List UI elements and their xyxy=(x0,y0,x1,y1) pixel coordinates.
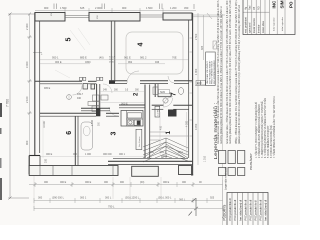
svg-text:3: 3 xyxy=(111,132,118,136)
svg-text:PŮDORYS: PŮDORYS xyxy=(222,205,227,221)
room 4 faint ceiling outline xyxy=(126,32,183,74)
kitchen block outer xyxy=(121,111,143,127)
bottom dim line 3 xyxy=(34,206,223,211)
kitchen tall unit xyxy=(136,129,142,149)
top dimension row texts xyxy=(44,6,189,10)
svg-text:000 L: 000 L xyxy=(179,199,186,202)
stairs upper treads xyxy=(150,132,188,140)
svg-text:949-7: 949-7 xyxy=(77,93,84,96)
svg-text:790 L: 790 L xyxy=(108,204,115,208)
scan artifact left edge xyxy=(0,103,2,117)
bottom dim row 1 texts xyxy=(44,181,202,184)
svg-text:E03: E03 xyxy=(197,81,202,85)
window between bar B and C xyxy=(140,15,163,17)
svg-text:4 000: 4 000 xyxy=(185,120,188,127)
room 7 left wall xyxy=(155,84,158,97)
svg-text:SM2: SM2 xyxy=(160,91,166,94)
thick joint block xyxy=(96,108,100,116)
svg-text:7. VŠEM OBRAZE LUVODĚNÉ LÁKA T: 7. VŠEM OBRAZE LUVODĚNÉ LÁKA TYLI NA VRS… xyxy=(273,96,276,158)
mid cluster texts xyxy=(109,57,115,64)
svg-text:2 500: 2 500 xyxy=(195,33,198,40)
bottom dim line 1 xyxy=(29,182,223,187)
svg-text:PVC potrubí tlls dl: PVC potrubí tlls dl xyxy=(244,199,248,220)
svg-text:981 2: 981 2 xyxy=(140,56,147,60)
svg-text:2 100: 2 100 xyxy=(25,96,29,103)
svg-text:1: 1 xyxy=(165,131,172,135)
right wall window marks xyxy=(190,38,193,136)
kitchen block divisions xyxy=(127,111,144,127)
right top dimension lines xyxy=(193,13,225,90)
svg-text:900: 900 xyxy=(122,6,127,10)
top right title block table xyxy=(243,0,295,35)
kitchen circle xyxy=(129,121,132,124)
svg-text:1 000: 1 000 xyxy=(85,153,92,156)
svg-text:940: 940 xyxy=(77,97,82,100)
svg-text:PO: PO xyxy=(289,1,294,8)
bathroom label texts xyxy=(44,87,84,100)
svg-text:2 000: 2 000 xyxy=(95,6,102,10)
legend swatch row 1 box 3 xyxy=(238,151,245,164)
corridor door arcs xyxy=(103,84,112,93)
svg-text:000 E: 000 E xyxy=(55,61,62,64)
svg-text:Rad: Rad xyxy=(249,5,252,10)
E03 label boxes xyxy=(196,81,205,86)
svg-text:900: 900 xyxy=(120,181,125,184)
svg-text:1 010: 1 010 xyxy=(204,155,207,162)
stairs chevrons xyxy=(143,138,188,162)
bathroom door arc xyxy=(73,86,83,96)
stair center dim line xyxy=(159,112,161,155)
interior dim line rooms 5/4 xyxy=(40,60,188,64)
bottom extension lines xyxy=(34,176,223,209)
svg-text:6: 6 xyxy=(66,131,73,135)
wall below room 5 xyxy=(35,81,97,84)
svg-text:6. POKUD JE PADLOUKÉ ŽIVÉ: 6. POKUD JE PADLOUKÉ ŽIVÉ xyxy=(270,125,273,158)
svg-text:PVC potrubí tlls dl: PVC potrubí tlls dl xyxy=(233,199,237,220)
door arc stair entry xyxy=(163,98,172,107)
window between bar A and B xyxy=(65,16,89,18)
legend swatch row 1 box 1 xyxy=(219,151,226,164)
fridge unit xyxy=(155,106,160,117)
svg-text:(40): (40) xyxy=(99,56,104,60)
svg-text:000: 000 xyxy=(150,151,155,154)
bottom dim row 2 texts xyxy=(38,197,215,202)
title block small texts xyxy=(244,5,265,33)
svg-text:76E: 76E xyxy=(172,56,177,60)
svg-text:rozměry (délka×výška×tl) 90 mm: rozměry (délka×výška×tl) 90 mm 300×10 tl… xyxy=(229,0,232,144)
legend swatch row 2 box 2 xyxy=(228,168,235,176)
right dim texts rotated xyxy=(195,33,207,162)
legend swatch row 1 box 2 xyxy=(228,151,235,164)
wall segment above corridor door xyxy=(81,108,110,111)
room 5 interior dim texts row 1 xyxy=(52,56,177,60)
left chain dim texts xyxy=(25,23,29,145)
svg-text:450: 450 xyxy=(184,6,189,10)
top wall bar C xyxy=(163,13,192,20)
stairwell top wall left xyxy=(152,105,164,109)
svg-text:1 500: 1 500 xyxy=(146,6,153,10)
svg-text:000 L: 000 L xyxy=(105,197,112,200)
svg-text:4 050: 4 050 xyxy=(195,123,198,130)
svg-text:POZNÁMKY: POZNÁMKY xyxy=(249,153,253,170)
bottom-left step outer wall xyxy=(29,156,53,175)
door arc room4 to corridor xyxy=(127,71,139,83)
svg-text:4: 4 xyxy=(138,43,145,47)
svg-text:mater obsa: mater obsa xyxy=(262,20,265,33)
bottom dim line 2 xyxy=(34,198,223,203)
svg-text:PVC potrubí tlls dl: PVC potrubí tlls dl xyxy=(259,199,263,220)
bathroom bottom wall xyxy=(40,113,97,116)
room 5 interior dim texts row 2 xyxy=(55,61,160,64)
svg-text:rozměry (délka×výška×tl) 90 mm: rozměry (délka×výška×tl) 90 mm 300×10 zd… xyxy=(220,6,223,144)
corridor upper dim texts xyxy=(103,90,140,92)
small label sm2 box xyxy=(159,90,170,94)
svg-text:000 1: 000 1 xyxy=(80,197,87,200)
svg-text:905 E: 905 E xyxy=(44,87,51,90)
svg-text:dolní vyjezdov: dolní vyjezdov xyxy=(282,16,284,31)
middle wall between rooms 5 and 4 xyxy=(111,21,115,82)
svg-text:200: 200 xyxy=(45,158,48,163)
svg-text:(00) L 000 L: (00) L 000 L xyxy=(158,197,172,200)
svg-text:ker. sklad (mm) dl: ker. sklad (mm) dl xyxy=(264,200,268,221)
legend description column 2 xyxy=(226,0,232,144)
svg-text:4. V PŘÍPADĚ PŮDORYSŮ VLOŽENÉ: 4. V PŘÍPADĚ PŮDORYSŮ VLOŽENÉ ATIKOVÝCH … xyxy=(264,98,267,158)
svg-text:SIM: SIM xyxy=(280,0,285,8)
bathtub room 3 xyxy=(81,122,93,150)
poznamky note lines xyxy=(255,96,276,158)
svg-text:1 500: 1 500 xyxy=(60,6,67,10)
svg-text:5: 5 xyxy=(66,38,73,42)
bottom right materials table xyxy=(227,193,268,226)
svg-text:5. NOVÉ OMĚŘENÍ POVRCHY: 5. NOVÉ OMĚŘENÍ POVRCHY xyxy=(267,125,270,158)
svg-text:Legenda místností: Legenda místností xyxy=(224,167,228,190)
bathroom divider wall xyxy=(97,84,100,116)
svg-text:925: 925 xyxy=(201,45,204,50)
chain slashes left xyxy=(9,13,32,200)
corridor thin line xyxy=(100,102,144,104)
bottom wall main line xyxy=(108,158,193,164)
svg-text:000 E: 000 E xyxy=(60,181,67,184)
bottom terrace bar 3 xyxy=(179,166,192,175)
right outer wall xyxy=(189,13,193,175)
note box with leader xyxy=(206,52,216,86)
title block big texts xyxy=(272,0,294,9)
junction block walls 5/4 xyxy=(109,80,115,84)
svg-text:000 E: 000 E xyxy=(163,181,170,184)
vertical separator line near legend xyxy=(222,14,224,225)
room 3 top wall right part xyxy=(119,105,145,108)
dim end slashes xyxy=(189,198,199,216)
svg-text:000 000: 000 000 xyxy=(103,153,112,156)
legend description column 1 xyxy=(217,0,223,144)
room 6 faint interior line xyxy=(42,120,44,158)
svg-text:000: 000 xyxy=(104,181,109,184)
svg-text:2. PŘENÁVANÉ ZDIVO MĚŘENO DAVĚ: 2. PŘENÁVANÉ ZDIVO MĚŘENO DAVĚ OVĚŘENO xyxy=(258,104,261,158)
svg-text:Olf: Olf xyxy=(253,7,256,10)
svg-text:001 1: 001 1 xyxy=(160,151,167,154)
top wall bar A xyxy=(35,13,65,22)
interior bottom dim line xyxy=(40,155,144,157)
svg-text:946: 946 xyxy=(155,61,160,64)
svg-text:000: 000 xyxy=(44,181,49,184)
stairs dim texts row xyxy=(150,151,183,158)
svg-text:961 E: 961 E xyxy=(124,56,131,60)
svg-text:LO RN: LO RN xyxy=(158,109,160,116)
svg-text:000 1: 000 1 xyxy=(119,153,126,156)
wall below room 4 segment 3 xyxy=(174,81,192,84)
left outer wall xyxy=(35,13,40,156)
room 6 and 3 divider wall xyxy=(75,117,78,167)
svg-text:2 800: 2 800 xyxy=(91,119,94,126)
svg-text:RO: RO xyxy=(258,6,261,10)
svg-text:000 E: 000 E xyxy=(85,181,92,184)
svg-text:885 E: 885 E xyxy=(80,56,87,60)
left chain dimension line xyxy=(27,14,32,155)
kitchen dark corner xyxy=(137,121,140,125)
svg-text:PVC potrubí tlls dl: PVC potrubí tlls dl xyxy=(249,199,253,220)
svg-text:0300: 0300 xyxy=(109,62,115,64)
svg-text:1. VŠE KOTY JSOU UVEDENY V CHK: 1. VŠE KOTY JSOU UVEDENY V CHKULRNA ÚDAJ… xyxy=(255,102,258,158)
svg-text:900 E: 900 E xyxy=(161,155,168,158)
bottom terrace band left xyxy=(29,166,118,176)
svg-text:mat. projektant: mat. projektant xyxy=(244,17,247,33)
bathroom fixtures right xyxy=(88,95,108,112)
svg-text:3. JINÉHO DIVÁ KEROLOGOVÉ VADO: 3. JINÉHO DIVÁ KEROLOGOVÉ VADOU T OVODOV… xyxy=(261,101,264,158)
svg-text:PVC potrubí tllsk dl: PVC potrubí tllsk dl xyxy=(228,198,232,220)
svg-text:(00): (00) xyxy=(140,181,144,184)
svg-text:950 1: 950 1 xyxy=(52,56,59,60)
room 7 fixtures xyxy=(153,87,184,103)
svg-text:000: 000 xyxy=(182,181,187,184)
wall stub down at x92 xyxy=(91,84,95,89)
svg-text:625: 625 xyxy=(80,6,85,10)
svg-text:(390 000 L: (390 000 L xyxy=(52,197,65,200)
svg-text:7 700: 7 700 xyxy=(6,99,10,107)
small hatch box xyxy=(213,41,217,49)
legend swatch row 2 box 3 xyxy=(238,168,245,176)
misc small texts above top-left bar xyxy=(51,12,99,19)
bottom terrace bar 2 xyxy=(132,166,159,176)
room 7 stub wall xyxy=(158,93,171,97)
svg-text:400: 400 xyxy=(159,125,162,130)
svg-text:925: 925 xyxy=(210,197,215,200)
stairwell corner block xyxy=(168,110,177,117)
bottom right table texts xyxy=(228,198,267,220)
svg-text:investor: investor xyxy=(258,24,261,33)
svg-text:000 E: 000 E xyxy=(46,153,53,156)
right dim vertical line long xyxy=(197,90,199,165)
stairwell left wall xyxy=(145,85,150,159)
radiator squares below rooms xyxy=(80,77,103,80)
svg-text:kreslir zkontro: kreslir zkontro xyxy=(253,17,256,33)
legend swatch row 2 box 1 xyxy=(219,168,226,176)
left overall dimension line 7700 xyxy=(8,14,35,198)
door jamb notch xyxy=(83,84,88,90)
wall below room 4 segment 2 xyxy=(140,81,168,84)
svg-text:2 300: 2 300 xyxy=(25,23,29,30)
legend description column 3 xyxy=(235,0,241,144)
room7 door arc xyxy=(163,97,173,107)
corridor bottom wall segment xyxy=(106,113,119,116)
top window tick pairs xyxy=(54,4,194,10)
svg-text:PRO STŘEŠNÍ ROZMĚRY: PRO STŘEŠNÍ ROZMĚRY xyxy=(213,59,216,84)
wall below room 4 segment 1 xyxy=(109,81,127,84)
svg-text:Lim Hamm: Lim Hamm xyxy=(139,136,141,147)
svg-text:PVC potrubí tls dl: PVC potrubí tls dl xyxy=(254,200,258,221)
svg-text:1 900: 1 900 xyxy=(195,68,198,75)
svg-text:900: 900 xyxy=(44,6,49,10)
svg-text:INC: INC xyxy=(272,0,277,9)
svg-text:1 200: 1 200 xyxy=(170,6,177,10)
stairwell top wall right xyxy=(173,105,192,109)
svg-text:koliv vyjezdov: koliv vyjezdov xyxy=(274,17,276,31)
title block wide col small texts xyxy=(274,16,285,31)
svg-text:(délka×výška×tl) 90 mm 300×10: (délka×výška×tl) 90 mm 300×10 tl zdiva P… xyxy=(238,5,241,144)
svg-text:962: 962 xyxy=(128,61,133,64)
svg-text:(00 ): (00 ) xyxy=(178,151,183,154)
bathroom fixture circle xyxy=(67,95,72,100)
misc faint interior lines room5 xyxy=(55,28,90,78)
top wall bar B xyxy=(89,13,140,22)
left wall tick xyxy=(33,52,42,54)
terrace band dividers xyxy=(40,166,113,176)
svg-text:900: 900 xyxy=(25,140,29,145)
top dimension line xyxy=(35,8,196,13)
svg-text:4 000: 4 000 xyxy=(42,121,46,128)
svg-text:0300: 0300 xyxy=(85,61,91,64)
svg-text:(00) L1200 L: (00) L1200 L xyxy=(125,197,140,200)
svg-text:zpracoval: zpracoval xyxy=(249,22,252,33)
svg-text:000: 000 xyxy=(38,197,43,200)
svg-text:3 000: 3 000 xyxy=(25,61,29,68)
door arc room7 top xyxy=(168,76,174,83)
bottom row1 slashes xyxy=(34,183,195,186)
svg-text:ker. sklad (mm) dl: ker. sklad (mm) dl xyxy=(239,200,243,221)
